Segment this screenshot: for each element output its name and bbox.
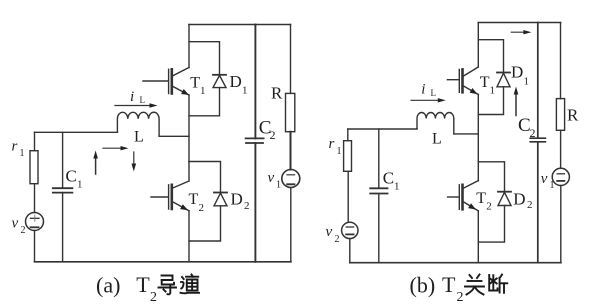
caption (b): hanzi GUAN (off)	[465, 275, 484, 295]
wire: (b) T2/D2 branch top	[478, 162, 504, 192]
wire: (a) T2 collector stub	[188, 162, 190, 182]
svg-text:2: 2	[457, 290, 464, 305]
wire: (a) D1 branch top	[189, 42, 220, 75]
caption (a): hanzi DAO (conduct)	[159, 276, 177, 295]
svg-text:1: 1	[200, 85, 206, 97]
svg-text:T: T	[189, 191, 199, 208]
svg-text:L: L	[134, 129, 144, 146]
capacitor C1 (a): top lead	[62, 132, 64, 188]
svg-text:v: v	[326, 224, 333, 240]
svg-text:D: D	[511, 63, 523, 82]
wire: (b) main vertical upper	[477, 23, 479, 68]
svg-text:2: 2	[199, 202, 205, 214]
wire: (a) inductor right lead to midpoint node	[159, 135, 189, 137]
inductor L (a)	[117, 112, 159, 136]
transistor T2 (a): emitter lead	[173, 202, 189, 211]
wire: (a) D2 branch bottom	[189, 206, 221, 241]
transistor T1 (b): collector lead	[464, 67, 479, 76]
svg-text:2: 2	[150, 290, 157, 305]
wire: (a) right rail upper	[290, 25, 292, 94]
svg-text:(a): (a)	[96, 273, 120, 298]
svg-text:1: 1	[337, 146, 342, 157]
transistor T2 (b): emitter arrowhead	[468, 203, 476, 209]
arrow: (a) loop right	[103, 147, 123, 149]
svg-text:R: R	[567, 106, 579, 125]
resistor r1 (b)	[344, 141, 352, 172]
svg-text:i: i	[421, 81, 425, 97]
transistor T1 (a): emitter lead	[173, 86, 189, 95]
svg-text:1: 1	[550, 180, 555, 191]
svg-text:2: 2	[527, 199, 533, 211]
transistor T2 (b): gate bar	[458, 185, 460, 210]
wire: (b) r1 to v2	[347, 171, 349, 222]
wire: (b) D2 branch bottom	[478, 206, 504, 243]
transistor T1 (a): emitter arrowhead	[181, 89, 189, 95]
svg-text:v: v	[541, 171, 548, 187]
svg-text:(b): (b)	[410, 273, 436, 298]
transistor T1 (b): gate lead	[447, 79, 458, 81]
wire: (b) right rail upper	[560, 23, 562, 99]
svg-text:T: T	[136, 272, 150, 297]
arrow: (a) iL current direction	[115, 105, 153, 107]
svg-text:L: L	[431, 88, 437, 98]
svg-text:R: R	[271, 83, 283, 102]
svg-text:D: D	[513, 190, 525, 209]
transistor T2 (a): gate lead	[151, 196, 167, 198]
wire: (a) v1 to bottom rail	[290, 188, 292, 262]
svg-text:i: i	[130, 89, 134, 105]
diode D2 (a)	[214, 192, 227, 194]
wire: (a) main vertical lower	[188, 211, 190, 262]
svg-text:L: L	[140, 95, 146, 105]
capacitor C2 (b): top lead	[537, 23, 539, 139]
arrow: (a) loop up	[95, 156, 97, 174]
transistor T1 (b): body bar	[461, 69, 464, 92]
svg-text:D: D	[230, 72, 242, 91]
wire: (a) main vertical mid, T1 emitter to T2 box	[188, 95, 190, 162]
svg-text:1: 1	[490, 85, 496, 97]
svg-text:2: 2	[244, 200, 250, 212]
transistor T2 (b): emitter lead	[464, 202, 479, 211]
wire: (b) D1 branch top	[478, 40, 503, 73]
capacitor C2 (a)	[246, 137, 264, 139]
capacitor C1 (b): bottom lead	[378, 194, 380, 263]
wire: (a) D1 branch bottom	[189, 88, 220, 116]
svg-text:2: 2	[270, 128, 276, 142]
transistor T2 (b): collector lead	[464, 181, 479, 188]
transistor T2 (a): gate bar	[168, 185, 170, 209]
diode D2 (b)	[498, 191, 511, 193]
source v1 (a)	[282, 170, 300, 188]
transistor T1 (a): collector lead	[173, 68, 189, 76]
svg-text:1: 1	[276, 180, 281, 191]
transistor T1 (b): emitter arrowhead	[470, 88, 478, 94]
transistor T1 (b): gate bar	[458, 69, 460, 92]
wire: (b) main vertical lower	[477, 211, 479, 263]
svg-text:1: 1	[394, 181, 400, 193]
wire: (a) v2 to bottom rail	[34, 231, 36, 262]
svg-text:T: T	[442, 272, 456, 297]
svg-text:2: 2	[486, 201, 492, 213]
wire: (b) R to v1	[560, 130, 562, 168]
diode D1 (a)	[213, 74, 226, 76]
svg-text:C: C	[66, 167, 77, 186]
transistor T1 (a): gate bar	[168, 69, 170, 93]
transistor T1 (b): emitter lead	[464, 86, 479, 95]
capacitor C2 (a): top lead	[254, 25, 256, 139]
caption (b): hanzi DUAN (break)	[489, 275, 507, 293]
svg-text:L: L	[432, 130, 442, 147]
wire: (a) r1 to v2	[34, 184, 36, 213]
capacitor C2 (b): bottom lead	[537, 142, 539, 263]
capacitor C1 (b): top lead	[378, 129, 380, 188]
wire: (b) v1 to bottom rail	[560, 186, 562, 263]
inductor L (b)	[417, 112, 454, 133]
wire: (b) T2 collector stub	[477, 162, 479, 181]
caption (a): hanzi TONG (through)	[181, 275, 200, 294]
resistor r1 (a): top lead	[34, 132, 36, 150]
svg-text:1: 1	[524, 76, 530, 88]
transistor T2 (a): body bar	[171, 185, 174, 209]
capacitor C2 (b)	[530, 137, 545, 139]
capacitor C1 (a)	[53, 187, 73, 189]
svg-text:v: v	[12, 216, 19, 232]
resistor r1 (b): top lead	[347, 129, 349, 141]
wire: (b) main vertical mid	[477, 95, 479, 162]
arrow: (b) D1 current up	[515, 92, 517, 116]
source v1 (b)	[552, 168, 569, 185]
wire: (a) R to v1	[290, 132, 292, 170]
transistor T2 (a): emitter arrowhead	[180, 204, 188, 210]
transistor T1 (a): gate lead	[143, 80, 167, 82]
svg-text:2: 2	[21, 225, 26, 236]
svg-text:1: 1	[77, 179, 83, 191]
resistor r1 (a)	[30, 151, 38, 184]
resistor R (a)	[286, 93, 295, 131]
diode D1 (b)	[497, 72, 510, 74]
arrow: (a) loop down	[133, 152, 135, 166]
wire: (a) T2/D2 branch top	[189, 162, 221, 193]
wire: (b) D1 branch bottom	[478, 87, 503, 115]
wire: (b) v2 to bottom rail	[349, 239, 351, 263]
wire: (a) top rail	[189, 24, 291, 26]
wire: (a) left rail top	[35, 131, 118, 133]
transistor T2 (b): body bar	[461, 185, 464, 210]
svg-text:T: T	[476, 190, 486, 207]
svg-text:v: v	[268, 170, 275, 186]
svg-text:1: 1	[242, 85, 248, 97]
svg-text:T: T	[190, 75, 200, 92]
wire: (a) bottom rail	[35, 261, 292, 263]
wire: (b) top rail	[478, 22, 560, 24]
wire: (b) left rail top	[348, 128, 417, 130]
svg-text:r: r	[329, 136, 335, 152]
capacitor C1 (b)	[370, 187, 387, 189]
capacitor C2 (a): bottom lead	[254, 143, 256, 262]
svg-text:2: 2	[335, 234, 340, 245]
capacitor C1 (a): bottom lead	[62, 193, 64, 262]
wire: (b) bottom rail	[350, 262, 561, 264]
svg-text:r: r	[12, 139, 18, 155]
wire: (b) inductor right lead to midpoint node	[454, 133, 479, 135]
svg-text:1: 1	[20, 148, 25, 159]
wire: (a) main vertical upper, T1 collector to top rail	[188, 25, 190, 68]
wire: (b) inductor left lead to left rail	[416, 128, 418, 130]
transistor T2 (a): collector lead	[173, 181, 189, 188]
source v2 (a)	[26, 213, 44, 231]
svg-text:T: T	[480, 74, 490, 91]
transistor T2 (b): gate lead	[448, 196, 458, 198]
resistor R (b)	[556, 99, 564, 131]
arrow: (b) top rail current direction	[511, 31, 526, 33]
svg-text:C: C	[383, 169, 394, 188]
source v2 (b)	[342, 222, 358, 238]
transistor T1 (a): body bar	[171, 69, 174, 93]
svg-text:D: D	[231, 190, 243, 209]
arrow: (b) iL current direction	[411, 99, 441, 101]
